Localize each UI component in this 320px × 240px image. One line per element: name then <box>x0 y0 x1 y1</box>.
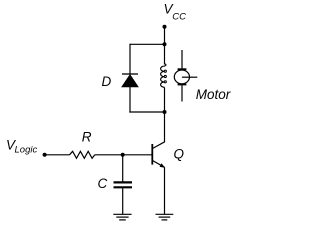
node junction bottom rail <box>163 110 167 114</box>
node input terminal dot <box>43 153 47 157</box>
node base junction dot <box>121 153 125 157</box>
wire inductor branch lower <box>164 87 166 112</box>
svg-text:D: D <box>102 74 112 89</box>
svg-text:Logic: Logic <box>15 145 38 156</box>
label C <box>98 176 108 191</box>
label R <box>82 130 92 145</box>
wire top rail <box>130 43 165 45</box>
wire input to resistor <box>45 154 70 156</box>
inductor motor winding coil <box>161 64 167 87</box>
transistor Q <box>152 142 165 168</box>
wire base node to capacitor <box>122 155 124 182</box>
label VLogic <box>6 137 37 155</box>
label Motor <box>196 87 231 102</box>
label D <box>102 74 112 89</box>
wire bottom rail <box>129 111 164 113</box>
wire base node to transistor base <box>123 154 153 156</box>
wire emitter <box>164 167 166 214</box>
capacitor C <box>114 182 133 187</box>
diode D <box>122 74 139 87</box>
label Q <box>174 146 185 161</box>
resistor R <box>70 151 95 158</box>
wire capacitor to ground <box>122 188 124 214</box>
wire resistor to base node <box>95 154 123 156</box>
wire collector <box>164 112 166 142</box>
motor symbol <box>174 50 197 102</box>
svg-text:Motor: Motor <box>196 87 231 102</box>
svg-text:R: R <box>82 130 92 145</box>
ground capacitor <box>113 214 131 220</box>
node junction top rail <box>163 42 167 46</box>
svg-text:Q: Q <box>174 146 185 161</box>
label Vcc <box>164 2 187 23</box>
svg-text:CC: CC <box>172 11 186 22</box>
wire inductor branch upper <box>164 44 166 64</box>
wire diode branch upper <box>129 44 131 74</box>
ground emitter <box>156 214 174 220</box>
node Vcc terminal dot <box>163 25 167 29</box>
svg-text:C: C <box>98 176 108 191</box>
wire diode branch lower <box>129 87 131 113</box>
wire Vcc stub <box>164 27 166 45</box>
